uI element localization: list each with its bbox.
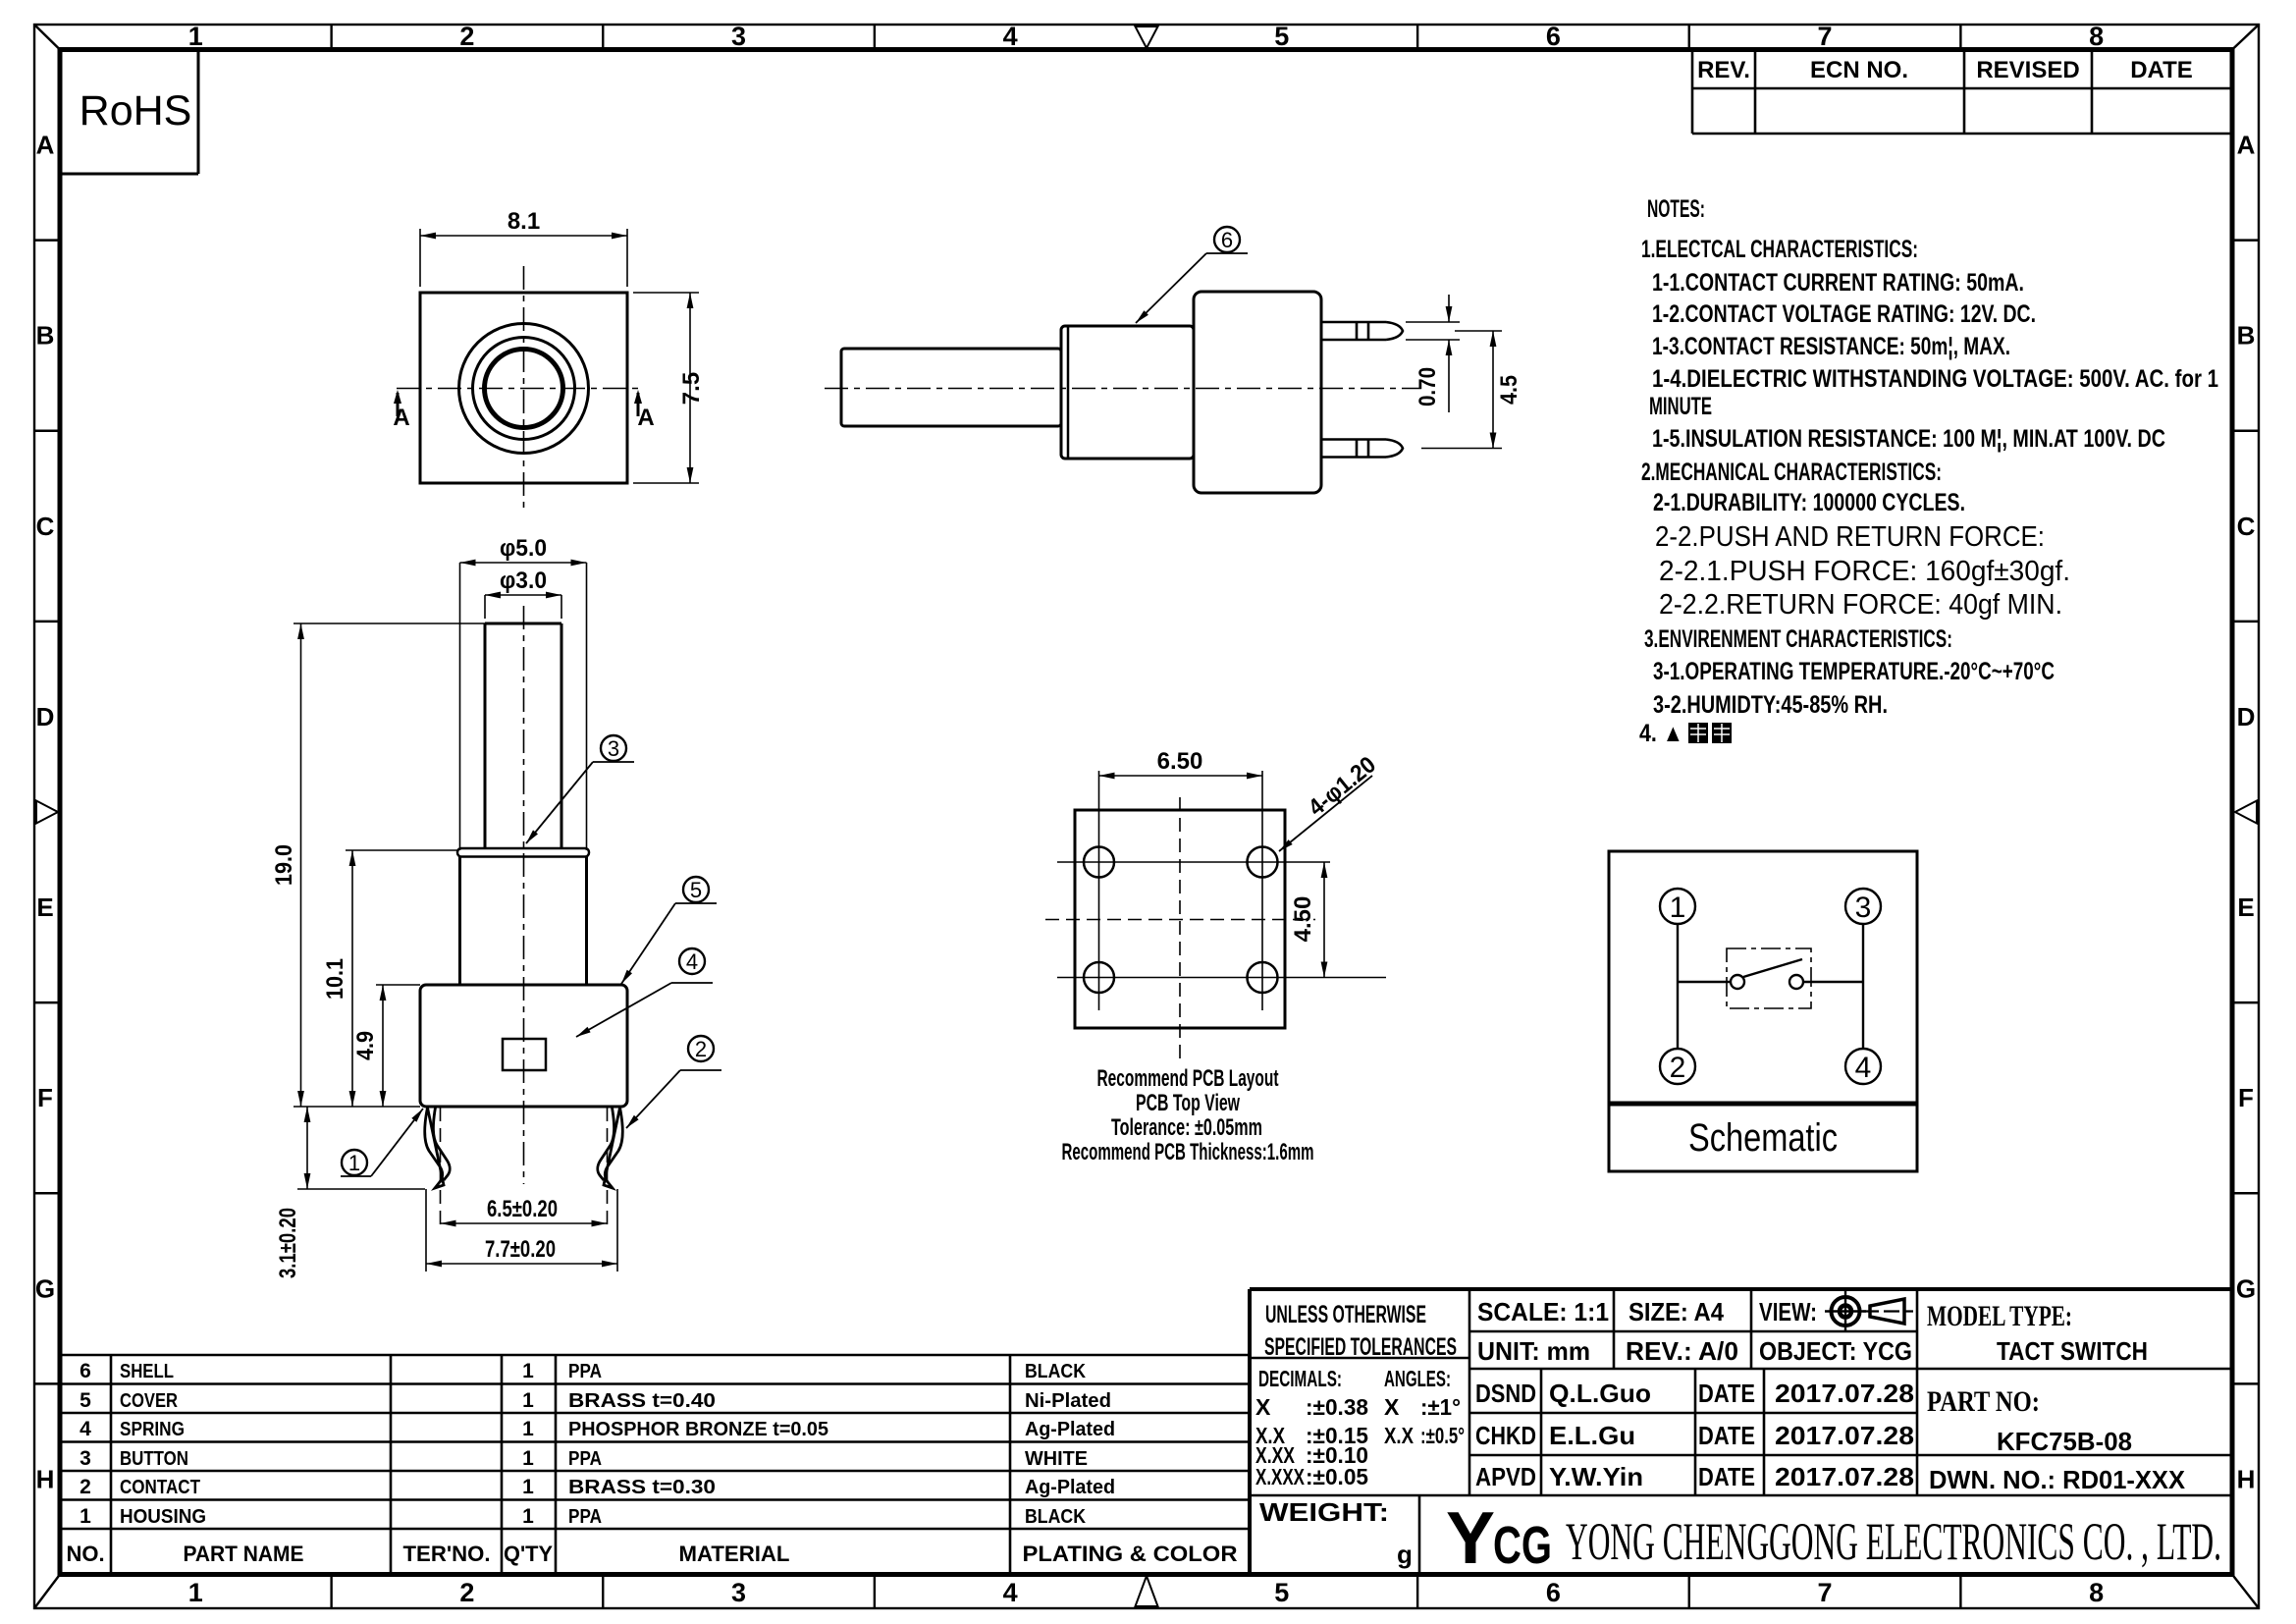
svg-text:2-1.DURABILITY: 100000 CYCLE: 2-1.DURABILITY: 100000 CYCLES. [1653, 489, 1965, 516]
svg-text:2: 2 [459, 1578, 474, 1607]
svg-text:4: 4 [80, 1418, 91, 1440]
svg-text:φ3.0: φ3.0 [500, 568, 547, 594]
svg-text:6.5±0.20: 6.5±0.20 [487, 1196, 558, 1222]
svg-text:YONG CHENGGONG ELECTRONICS: YONG CHENGGONG ELECTRONICS CO. , LTD. [1566, 1512, 2221, 1571]
svg-text:SIZE: A4: SIZE: A4 [1629, 1297, 1724, 1326]
svg-text:Ni-Plated: Ni-Plated [1025, 1390, 1111, 1412]
svg-text:5: 5 [1274, 1578, 1289, 1607]
svg-text:Y.W.Yin: Y.W.Yin [1549, 1462, 1643, 1491]
svg-text:5: 5 [1274, 22, 1289, 51]
svg-text:C: C [2237, 512, 2256, 541]
svg-text:4.5: 4.5 [1496, 375, 1522, 405]
svg-text:DSND: DSND [1475, 1379, 1536, 1408]
svg-text:2: 2 [1670, 1052, 1686, 1084]
svg-text:A: A [393, 405, 409, 431]
svg-text:1: 1 [522, 1505, 534, 1528]
svg-text:4.9: 4.9 [352, 1031, 379, 1060]
svg-text:3.ENVIRENMENT CHARACTERISTICS: 3.ENVIRENMENT CHARACTERISTICS: [1644, 625, 1952, 653]
svg-text:F: F [37, 1083, 53, 1112]
svg-text:Tolerance: ±0.05mm: Tolerance: ±0.05mm [1111, 1114, 1262, 1141]
svg-text:1: 1 [522, 1418, 534, 1440]
svg-text:Q.L.Guo: Q.L.Guo [1549, 1379, 1651, 1408]
svg-text:Schematic: Schematic [1688, 1116, 1838, 1160]
svg-text:C: C [36, 512, 55, 541]
svg-text:PCB Top View: PCB Top View [1136, 1090, 1240, 1116]
svg-text:DATE: DATE [2130, 57, 2193, 83]
svg-text:1.ELECTCAL CHARACTERISTICS:: 1.ELECTCAL CHARACTERISTICS: [1641, 236, 1918, 263]
svg-text:3: 3 [731, 22, 746, 51]
svg-text:CONTACT: CONTACT [120, 1477, 200, 1498]
svg-text:φ5.0: φ5.0 [500, 535, 547, 562]
svg-text:E: E [2237, 893, 2254, 922]
svg-text:1-1.CONTACT CURRENT RATING:: 1-1.CONTACT CURRENT RATING: 50mA. [1652, 269, 2024, 297]
svg-text:ECN NO.: ECN NO. [1810, 57, 1908, 83]
svg-text:BLACK: BLACK [1025, 1506, 1086, 1528]
svg-text:1: 1 [348, 1151, 360, 1175]
svg-text:D: D [2237, 702, 2256, 731]
svg-text:BRASS t=0.40: BRASS t=0.40 [568, 1390, 716, 1412]
svg-text:2-2.2.RETURN FORCE: 40gf MI: 2-2.2.RETURN FORCE: 40gf MIN. [1659, 589, 2062, 621]
svg-text:BLACK: BLACK [1025, 1361, 1086, 1382]
svg-text:X: X [1384, 1394, 1400, 1420]
svg-text:F: F [2238, 1083, 2254, 1112]
svg-text:PHOSPHOR BRONZE t=0.05: PHOSPHOR BRONZE t=0.05 [568, 1419, 828, 1440]
svg-text:SHELL: SHELL [120, 1361, 174, 1382]
svg-text:KFC75B-08: KFC75B-08 [1997, 1427, 2132, 1456]
svg-text:3-1.OPERATING TEMPERATURE.-20: 3-1.OPERATING TEMPERATURE.-20°C~+70°C [1653, 658, 2055, 685]
svg-text:WHITE: WHITE [1025, 1448, 1088, 1470]
svg-text:A: A [637, 405, 654, 431]
svg-text:2017.07.28: 2017.07.28 [1775, 1462, 1914, 1491]
svg-text:1: 1 [80, 1505, 91, 1528]
svg-text:g: g [1397, 1540, 1413, 1569]
svg-text:6.50: 6.50 [1157, 748, 1203, 775]
svg-text:5: 5 [690, 878, 702, 902]
svg-text:3: 3 [1855, 892, 1872, 924]
svg-text:REV.: A/0: REV.: A/0 [1626, 1336, 1738, 1366]
svg-text:1: 1 [522, 1476, 534, 1498]
svg-text:HOUSING: HOUSING [120, 1506, 206, 1528]
svg-text:PLATING & COLOR: PLATING & COLOR [1023, 1542, 1238, 1566]
svg-text:1-4.DIELECTRIC WITHSTANDING: 1-4.DIELECTRIC WITHSTANDING VOLTAGE: 500… [1652, 365, 2218, 393]
svg-text:TER'NO.: TER'NO. [403, 1542, 491, 1566]
svg-text:SPRING: SPRING [120, 1419, 185, 1440]
svg-text:6: 6 [1221, 228, 1233, 252]
svg-text:8.1: 8.1 [507, 208, 540, 235]
svg-text:CHKD: CHKD [1475, 1421, 1536, 1450]
svg-text:UNLESS OTHERWISE: UNLESS OTHERWISE [1265, 1301, 1426, 1328]
svg-text:8: 8 [2089, 1578, 2104, 1607]
svg-text:4.50: 4.50 [1290, 896, 1316, 943]
svg-text:Recommend PCB Thickness:1.6m: Recommend PCB Thickness:1.6mm [1062, 1139, 1314, 1165]
svg-text:A: A [36, 131, 55, 160]
svg-text:B: B [36, 321, 55, 351]
svg-text:1: 1 [1670, 892, 1686, 924]
svg-text:DATE: DATE [1698, 1379, 1755, 1408]
svg-text:7.5: 7.5 [678, 372, 705, 405]
svg-text:2-2.PUSH AND RETURN FORCE:: 2-2.PUSH AND RETURN FORCE: [1655, 521, 2045, 553]
svg-text:PPA: PPA [568, 1448, 602, 1470]
svg-text:6: 6 [1546, 22, 1561, 51]
svg-text:G: G [35, 1273, 55, 1303]
svg-text:Recommend PCB Layout: Recommend PCB Layout [1097, 1065, 1279, 1092]
svg-text:X.X: X.X [1384, 1423, 1415, 1448]
svg-text:3-2.HUMIDTY:45-85% RH.: 3-2.HUMIDTY:45-85% RH. [1653, 691, 1888, 719]
svg-text:DATE: DATE [1698, 1462, 1755, 1491]
svg-text:SCALE: 1:1: SCALE: 1:1 [1477, 1297, 1609, 1326]
svg-text:NOTES:: NOTES: [1647, 195, 1705, 223]
svg-text:Ag-Plated: Ag-Plated [1025, 1419, 1115, 1440]
svg-text:6: 6 [80, 1360, 91, 1382]
svg-text:3: 3 [731, 1578, 746, 1607]
svg-text:4: 4 [1003, 1578, 1018, 1607]
svg-text:2: 2 [459, 22, 474, 51]
svg-text:1-3.CONTACT RESISTANCE: 50m¦: 1-3.CONTACT RESISTANCE: 50m¦, MAX. [1652, 333, 2010, 360]
svg-text:2017.07.28: 2017.07.28 [1775, 1421, 1914, 1450]
svg-text:COVER: COVER [120, 1390, 178, 1412]
svg-text:H: H [2237, 1464, 2256, 1493]
svg-text:E.L.Gu: E.L.Gu [1549, 1421, 1635, 1450]
svg-text:3.1±0.20: 3.1±0.20 [275, 1208, 301, 1278]
svg-text:Ag-Plated: Ag-Plated [1025, 1477, 1115, 1498]
svg-text:1: 1 [522, 1447, 534, 1470]
svg-text:7: 7 [1818, 22, 1833, 51]
svg-text::±0.38: :±0.38 [1306, 1394, 1368, 1420]
svg-text::±0.5°: :±0.5° [1420, 1423, 1465, 1448]
svg-text:DWN. NO.: RD01-XXX: DWN. NO.: RD01-XXX [1929, 1465, 2186, 1494]
svg-text:2: 2 [80, 1476, 91, 1498]
svg-text:6: 6 [1546, 1578, 1561, 1607]
svg-text:1: 1 [522, 1389, 534, 1412]
svg-text:4: 4 [1855, 1052, 1872, 1084]
svg-text:1: 1 [188, 1578, 203, 1607]
svg-text:MATERIAL: MATERIAL [679, 1542, 790, 1566]
svg-text:8: 8 [2089, 22, 2104, 51]
svg-text:OBJECT: YCG: OBJECT: YCG [1759, 1336, 1912, 1366]
svg-text:REV.: REV. [1697, 57, 1750, 83]
svg-text:B: B [2237, 321, 2256, 351]
svg-text:UNIT: mm: UNIT: mm [1477, 1336, 1590, 1366]
svg-text::±0.05: :±0.05 [1306, 1464, 1368, 1489]
svg-text:Y: Y [1446, 1496, 1495, 1579]
svg-text:X.XXX: X.XXX [1255, 1464, 1305, 1489]
svg-text:X: X [1255, 1394, 1271, 1420]
svg-text:DECIMALS:: DECIMALS: [1258, 1366, 1342, 1391]
svg-text:4: 4 [1003, 22, 1018, 51]
svg-text:PART NAME: PART NAME [184, 1542, 304, 1566]
svg-text:4. ▲: 4. ▲ [1639, 720, 1683, 747]
svg-text:10.1: 10.1 [322, 958, 348, 1000]
svg-text:2-2.1.PUSH FORCE: 160gf±30: 2-2.1.PUSH FORCE: 160gf±30gf. [1659, 556, 2070, 587]
svg-text:VIEW:: VIEW: [1759, 1297, 1817, 1326]
svg-text:PART NO:: PART NO: [1927, 1385, 2040, 1418]
svg-text::±1°: :±1° [1420, 1394, 1461, 1420]
svg-text:RoHS: RoHS [80, 87, 192, 135]
svg-text:3: 3 [608, 736, 619, 761]
svg-text:BRASS t=0.30: BRASS t=0.30 [568, 1477, 716, 1498]
svg-text:D: D [36, 702, 55, 731]
svg-text:1: 1 [522, 1360, 534, 1382]
svg-text:1-5.INSULATION RESISTANCE: 1: 1-5.INSULATION RESISTANCE: 100 M¦, MIN.A… [1652, 425, 2165, 453]
svg-text:NO.: NO. [66, 1542, 104, 1566]
svg-text:PPA: PPA [568, 1506, 602, 1528]
svg-text:A: A [2237, 131, 2256, 160]
svg-text:DATE: DATE [1698, 1421, 1755, 1450]
svg-text:MINUTE: MINUTE [1649, 393, 1712, 420]
svg-text:7.7±0.20: 7.7±0.20 [485, 1236, 556, 1263]
svg-text:3: 3 [80, 1447, 91, 1470]
svg-text:MODEL TYPE:: MODEL TYPE: [1927, 1300, 2072, 1332]
svg-text:WEIGHT:: WEIGHT: [1259, 1497, 1389, 1527]
svg-text:2017.07.28: 2017.07.28 [1775, 1379, 1914, 1408]
svg-text:4: 4 [686, 949, 698, 974]
svg-text:H: H [36, 1464, 55, 1493]
svg-text:APVD: APVD [1475, 1462, 1536, 1491]
svg-text:SPECIFIED TOLERANCES: SPECIFIED TOLERANCES [1264, 1333, 1457, 1361]
svg-text:2.MECHANICAL CHARACTERISTICS:: 2.MECHANICAL CHARACTERISTICS: [1641, 459, 1942, 486]
svg-text:G: G [2236, 1273, 2256, 1303]
svg-text:0.70: 0.70 [1415, 367, 1441, 406]
svg-text:1: 1 [188, 22, 203, 51]
svg-text:7: 7 [1818, 1578, 1833, 1607]
svg-text:ANGLES:: ANGLES: [1384, 1366, 1451, 1391]
svg-text:E: E [36, 893, 53, 922]
svg-text:CG: CG [1493, 1516, 1552, 1575]
svg-text:Q'TY: Q'TY [504, 1542, 553, 1566]
svg-text:19.0: 19.0 [271, 844, 297, 886]
svg-text:REVISED: REVISED [1976, 57, 2079, 83]
svg-text:2: 2 [695, 1037, 707, 1061]
svg-text:1-2.CONTACT VOLTAGE RATING:: 1-2.CONTACT VOLTAGE RATING: 12V. DC. [1652, 300, 2036, 328]
svg-text:TACT SWITCH: TACT SWITCH [1997, 1336, 2148, 1366]
svg-text:5: 5 [80, 1389, 91, 1412]
svg-text:BUTTON: BUTTON [120, 1448, 188, 1470]
svg-text:PPA: PPA [568, 1361, 602, 1382]
